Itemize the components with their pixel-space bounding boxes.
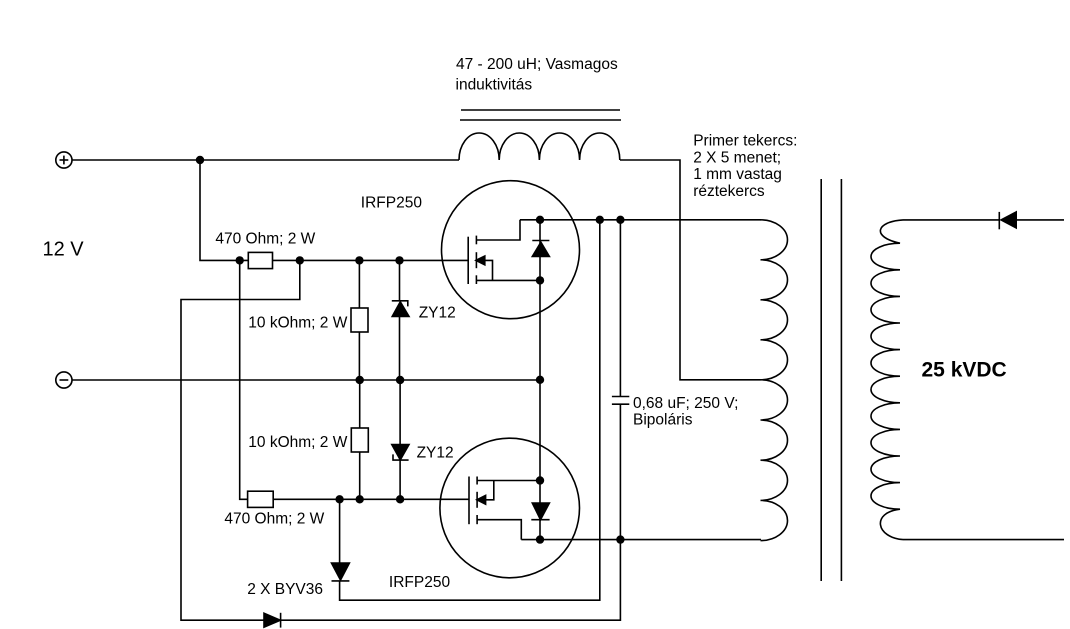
wire +12V top rail (72, 159, 459, 161)
wire +12V down to R1 (200, 160, 248, 260)
svg-text:induktivitás: induktivitás (456, 77, 533, 94)
mosfet Q1 arrow (476, 256, 493, 280)
wire secondary bottom output (903, 539, 1064, 541)
node R1 right (296, 257, 303, 264)
svg-text:470 Ohm; 2 W: 470 Ohm; 2 W (224, 511, 324, 528)
svg-text:470 Ohm; 2 W: 470 Ohm; 2 W (215, 231, 315, 248)
label output 25 kVDC (922, 359, 1007, 382)
wire drain Q1 rail (520, 219, 761, 221)
transformer primary winding (761, 220, 788, 541)
svg-text:0,68 uF; 250 V;: 0,68 uF; 250 V; (633, 395, 738, 412)
mosfet Q1 drain lead (476, 220, 520, 240)
node source Q2 (537, 477, 544, 484)
wire D2 to drain Q2 rail (281, 540, 621, 621)
label Z1 (419, 305, 456, 322)
node R3 top (356, 257, 363, 264)
label primary winding (693, 133, 797, 200)
wire common source (539, 280, 541, 480)
node C1 top (617, 216, 624, 223)
zener Z1 ZY12 (392, 260, 409, 380)
node source Q1 (537, 277, 544, 284)
resistor R1 470 Ohm (248, 252, 272, 268)
node D1 rail (596, 216, 603, 223)
node R1 left (236, 257, 243, 264)
label R1 value (215, 231, 315, 248)
mosfet Q1 source lead (476, 279, 540, 281)
wire drain Q2 rail (521, 539, 761, 541)
transformer secondary winding (871, 220, 903, 540)
body diode Q1 (532, 220, 549, 281)
label C1 value (633, 395, 738, 429)
wire 0V ground line (72, 379, 540, 381)
resistor R3 10 kOhm (351, 260, 368, 380)
mosfet Q2 arrow (477, 481, 494, 505)
terminal minus (56, 372, 72, 388)
svg-text:2 X 5 menet;: 2 X 5 menet; (693, 149, 781, 166)
wire R1 to gate Q1 (273, 259, 469, 261)
node Z2 top (397, 377, 404, 384)
label L1 value (456, 56, 618, 94)
inductor L1 (459, 133, 620, 160)
mosfet Q1 circle (442, 181, 580, 319)
wire R1 left down to R2 (240, 260, 248, 499)
node Z1 top (396, 257, 403, 264)
mosfet Q2 drain lead (477, 520, 521, 540)
node common source (537, 376, 544, 383)
label R2 value (224, 511, 324, 528)
node D1 top (336, 496, 343, 503)
mosfet Q2 circle (440, 438, 580, 578)
wire gate Q2 (273, 498, 469, 500)
svg-text:1 mm vastag: 1 mm vastag (693, 166, 782, 183)
label D1 D2 2 X BYV36 (247, 581, 323, 598)
label R3 value (248, 315, 347, 332)
label Q2 IRFP250 (389, 574, 451, 591)
mosfet Q1 channel segments (475, 236, 477, 284)
inductor L1 core bars (460, 110, 621, 120)
label 12 V (43, 239, 85, 261)
svg-text:Bipoláris: Bipoláris (633, 412, 693, 429)
resistor R2 470 Ohm (248, 491, 274, 507)
node drain Q2 (537, 536, 544, 543)
wire gate Q1 to diode D2 (left loop) (181, 260, 300, 620)
label Z2 (417, 445, 454, 462)
svg-text:25 kVDC: 25 kVDC (922, 359, 1007, 382)
wire L1 to primary center tap (620, 160, 761, 380)
resistor R4 10 kOhm (351, 380, 368, 499)
mosfet Q2 channel segments (476, 477, 478, 525)
node R4 top (356, 377, 363, 384)
svg-text:IRFP250: IRFP250 (361, 195, 423, 212)
mosfet Q1 gate bar (467, 237, 469, 284)
node Z2 bottom (397, 496, 404, 503)
svg-text:12 V: 12 V (43, 239, 85, 261)
diode D2 BYV36 (264, 613, 281, 628)
label Q1 IRFP250 (361, 195, 423, 212)
transformer core (821, 179, 841, 581)
svg-text:ZY12: ZY12 (417, 445, 454, 462)
svg-text:2 X BYV36: 2 X BYV36 (247, 581, 323, 598)
node body diode Q1 top (537, 216, 544, 223)
svg-text:IRFP250: IRFP250 (389, 574, 451, 591)
node R4 bottom (356, 496, 363, 503)
svg-text:réztekercs: réztekercs (693, 183, 765, 200)
wire secondary top output (903, 219, 999, 221)
svg-text:10 kOhm; 2 W: 10 kOhm; 2 W (248, 434, 347, 451)
body diode Q2 (531, 481, 549, 540)
label R4 value (248, 434, 347, 451)
terminal plus (56, 152, 72, 168)
node +12V junction (197, 157, 204, 164)
diode D1 BYV36 (332, 220, 600, 600)
capacitor C1 (612, 220, 629, 540)
svg-text:47 - 200 uH; Vasmagos: 47 - 200 uH; Vasmagos (456, 56, 618, 73)
svg-text:Primer tekercs:: Primer tekercs: (693, 133, 797, 150)
node C1 bottom (617, 536, 624, 543)
mosfet Q2 gate bar (468, 477, 470, 525)
zener Z2 ZY12 (392, 380, 409, 499)
mosfet Q2 source lead (477, 480, 540, 482)
diode D3 output (999, 212, 1064, 229)
svg-text:ZY12: ZY12 (419, 305, 456, 322)
svg-text:10 kOhm; 2 W: 10 kOhm; 2 W (248, 315, 347, 332)
